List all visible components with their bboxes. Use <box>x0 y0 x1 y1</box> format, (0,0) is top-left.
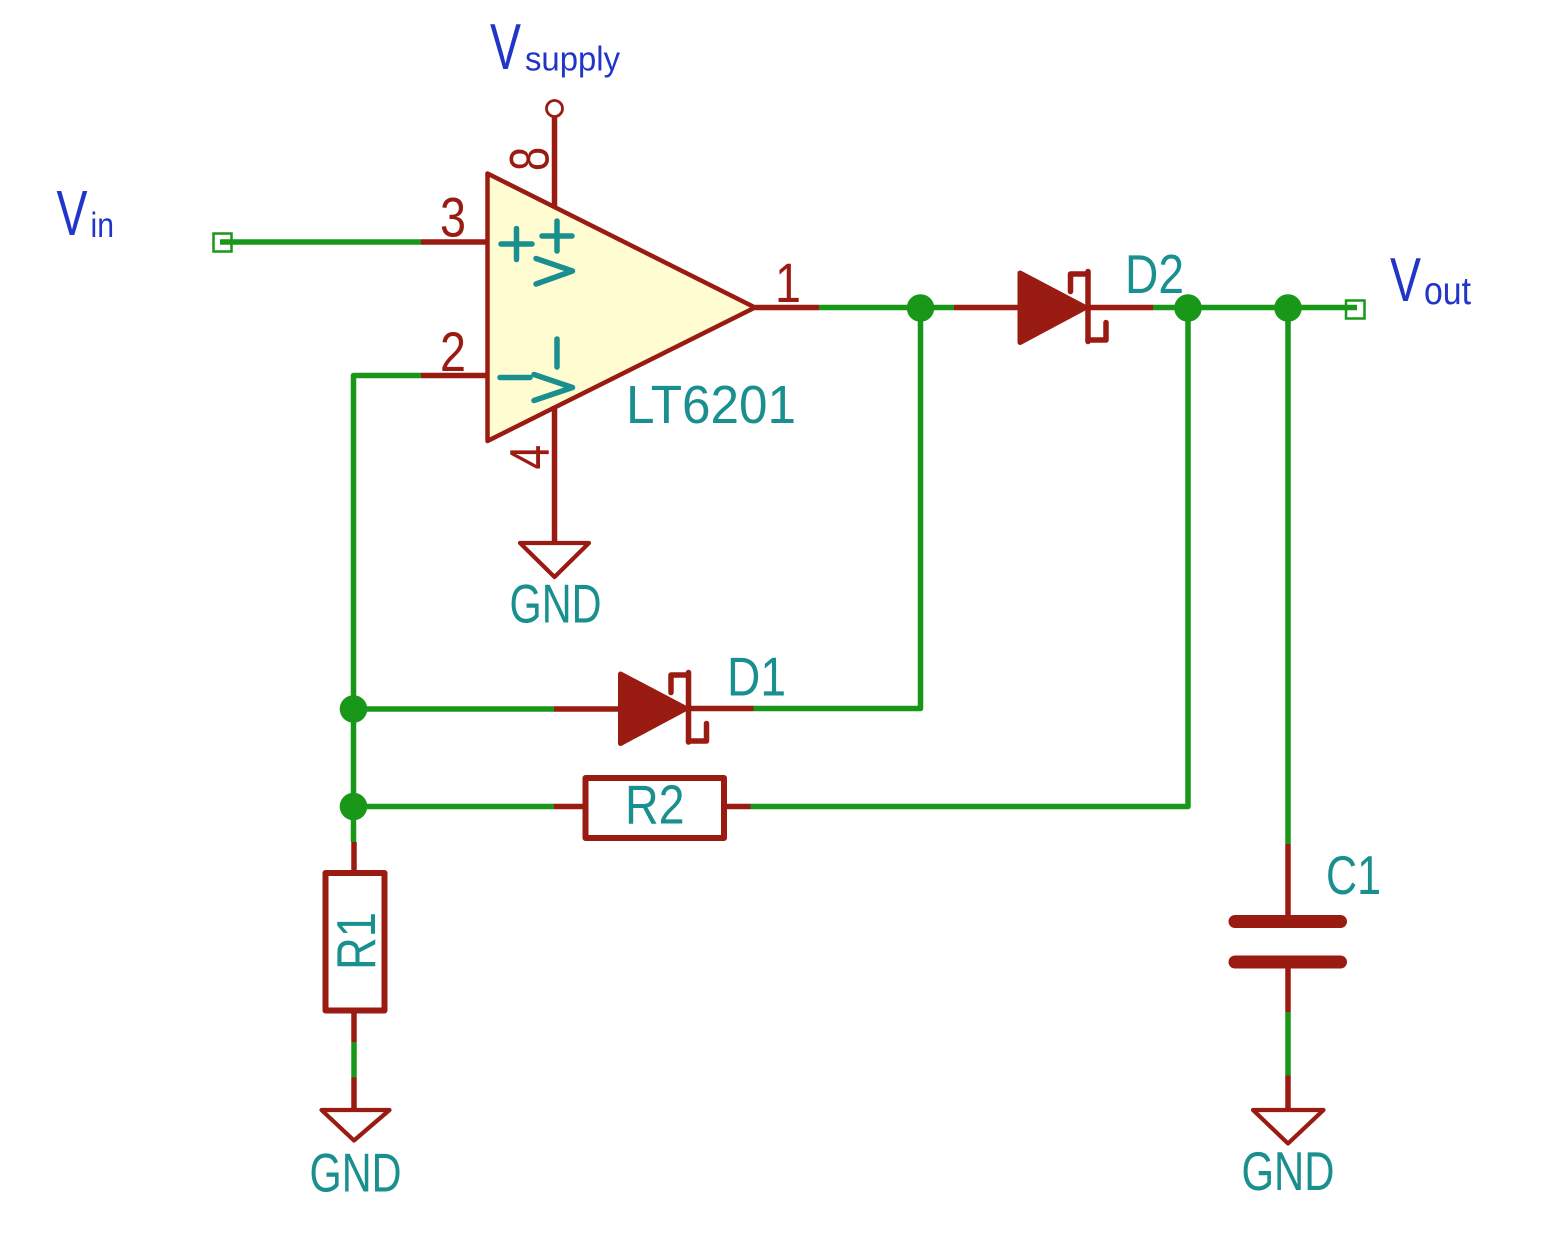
svg-text:supply: supply <box>525 41 620 79</box>
resistor R1 top pin <box>351 842 357 873</box>
svg-text:GND: GND <box>510 573 602 635</box>
pin number 3 <box>440 186 466 249</box>
capacitor C1 top pin <box>1285 844 1291 916</box>
pin 4 stub <box>552 406 558 541</box>
wire output net op-amp to D2 <box>819 305 954 311</box>
resistor R2 right pin <box>724 804 751 810</box>
junction node output-C1 <box>1274 294 1302 322</box>
svg-text:3: 3 <box>440 186 466 249</box>
diode D1 anode pin <box>554 706 622 712</box>
op-amp plus marker near pin 3 <box>501 229 532 260</box>
pin 1 stub <box>755 305 819 311</box>
op-amp minus marker vertical <box>554 339 560 367</box>
pin 3 stub <box>421 239 489 245</box>
pin number 1 <box>775 251 801 314</box>
pin number 8 <box>498 147 561 171</box>
junction node output-D1 <box>907 294 935 322</box>
svg-text:V: V <box>490 10 521 83</box>
wire pin2 to feedback node <box>354 376 422 843</box>
value LT6201 <box>626 375 796 435</box>
wire C1 bottom to ground <box>1285 1012 1291 1076</box>
wire R1 bottom to ground <box>351 1042 357 1078</box>
resistor R2 left pin <box>554 804 586 810</box>
diode D1 cathode pin <box>689 706 754 712</box>
op-amp minus marker near pin 2 <box>500 375 530 381</box>
junction node B feedback-R2 <box>340 793 368 821</box>
ground symbol below R1 <box>322 1110 390 1141</box>
global label Vin <box>57 177 115 249</box>
svg-text:V: V <box>57 177 88 249</box>
op-amp plus marker upper <box>542 221 572 251</box>
svg-text:GND: GND <box>310 1142 402 1204</box>
svg-text:GND: GND <box>1242 1140 1335 1202</box>
diode D2 body <box>1020 272 1106 343</box>
label D1 <box>727 646 786 708</box>
label R2 <box>625 774 685 836</box>
global label Vsupply <box>490 10 620 83</box>
diode D1 body <box>621 673 707 744</box>
global label Vout <box>1390 245 1471 315</box>
svg-text:D2: D2 <box>1125 243 1184 305</box>
svg-text:out: out <box>1424 270 1471 313</box>
wire D1 anode from node A <box>354 706 555 712</box>
svg-text:R1: R1 <box>325 912 387 970</box>
wire node B to R2 <box>354 804 555 810</box>
port square Vin <box>214 234 232 252</box>
label R1 <box>325 912 387 970</box>
svg-text:2: 2 <box>440 320 466 383</box>
pin number 2 <box>440 320 466 383</box>
resistor R2 body <box>586 778 725 838</box>
diode D2 anode pin <box>954 305 1021 311</box>
op-amp U1 LT6201 body <box>488 174 756 442</box>
ground label below C1 <box>1242 1140 1335 1202</box>
junction node A feedback-D1 <box>340 695 368 723</box>
diode D2 cathode pin <box>1088 305 1153 311</box>
ground symbol below op-amp <box>520 543 589 577</box>
wire D1 cathode up to output net <box>754 308 921 709</box>
pin 8 stub <box>552 117 558 207</box>
svg-text:in: in <box>91 206 115 245</box>
label D2 <box>1125 243 1184 305</box>
svg-text:4: 4 <box>497 445 560 470</box>
svg-text:1: 1 <box>775 251 801 314</box>
port square Vout <box>1346 301 1365 319</box>
wire output net down to C1 <box>1285 308 1291 844</box>
power connector circle Vsupply <box>547 101 563 117</box>
capacitor C1 bottom pin <box>1285 968 1291 1012</box>
svg-text:8: 8 <box>498 147 561 171</box>
svg-text:C1: C1 <box>1326 844 1381 906</box>
wire D2 cathode to Vout port <box>1153 305 1357 311</box>
ground symbol below C1 <box>1253 1110 1324 1144</box>
pin 2 stub <box>421 373 489 379</box>
svg-text:V: V <box>1390 245 1421 315</box>
svg-text:R2: R2 <box>625 774 685 836</box>
label C1 <box>1326 844 1381 906</box>
resistor R1 bottom pin <box>351 1011 357 1043</box>
junction node output-R2 <box>1174 294 1202 322</box>
resistor R1 body <box>326 873 385 1011</box>
capacitor C1 plates <box>1229 915 1348 969</box>
op-amp chevron upper <box>536 259 573 285</box>
ground pin below C1 <box>1285 1076 1291 1109</box>
svg-text:LT6201: LT6201 <box>626 375 796 435</box>
ground pin below R1 <box>351 1078 357 1109</box>
pin number 4 <box>497 445 560 470</box>
op-amp chevron lower <box>534 375 573 401</box>
ground label below op-amp <box>510 573 602 635</box>
ground label below R1 <box>310 1142 402 1204</box>
wire R2 right to output net <box>751 308 1189 807</box>
svg-text:D1: D1 <box>727 646 786 708</box>
wire Vin to pin 3 <box>220 239 421 245</box>
